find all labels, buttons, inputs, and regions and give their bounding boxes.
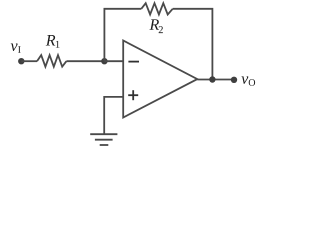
- node junction at inverting input: [101, 58, 107, 64]
- terminal dot vI: [18, 58, 24, 64]
- resistor R2: [141, 3, 172, 14]
- label vO: [241, 76, 255, 86]
- wire non-inverting input to ground: [104, 97, 123, 134]
- ground: [90, 134, 117, 145]
- wire feedback riser: [104, 9, 141, 61]
- label R2: [149, 19, 162, 33]
- wire R1 to summing node: [66, 60, 104, 62]
- output node junction: [209, 76, 215, 82]
- label vI: [11, 44, 21, 53]
- wire op-amp output: [197, 79, 234, 81]
- wire input lead: [21, 60, 37, 62]
- wire node to op-amp inverting input: [104, 60, 123, 62]
- wire R2 to output node: [173, 9, 213, 80]
- terminal dot vO: [231, 77, 237, 83]
- op-amp minus sign: [128, 61, 139, 63]
- label R1: [46, 35, 60, 48]
- resistor R1: [37, 55, 66, 67]
- op-amp U1 triangle: [123, 41, 197, 118]
- op-amp plus sign: [128, 90, 138, 100]
